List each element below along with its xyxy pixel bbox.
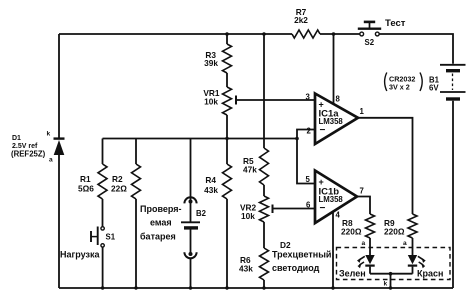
- svg-text:22Ω: 22Ω: [111, 184, 127, 194]
- wire top rail right segment: [379, 34, 453, 64]
- wire B2 to bottom clip: [190, 230, 192, 254]
- svg-text:R2: R2: [112, 174, 123, 184]
- wire pin 8 from top rail: [333, 34, 335, 105]
- node junction R2 bottom rail: [134, 286, 137, 289]
- svg-text:Нагрузка: Нагрузка: [60, 250, 100, 260]
- svg-text:7: 7: [360, 187, 364, 196]
- node junction R3 top rail: [225, 32, 229, 36]
- dashed box D2 tri-color LED: [337, 248, 451, 280]
- node junction R4 bottom rail: [225, 286, 228, 289]
- svg-text:47k: 47k: [243, 165, 257, 175]
- wire pin 1 output to R9: [358, 118, 413, 214]
- potentiometer VR1: [203, 73, 236, 115]
- LED red: [408, 255, 426, 274]
- resistor R9: [384, 214, 417, 238]
- wire R4 to bottom rail: [226, 199, 228, 288]
- wire bottom clip to rail: [190, 259, 192, 288]
- wire VR2 wiper to pin 6: [273, 208, 316, 210]
- svg-text:Тест: Тест: [385, 18, 406, 29]
- node k junction: [389, 272, 393, 276]
- wire R1 to S1: [102, 199, 104, 226]
- wire VR1 bottom to R4: [226, 115, 228, 164]
- svg-text:S1: S1: [106, 233, 116, 242]
- wire VR1 wiper to pin 3: [236, 99, 315, 101]
- node junction R5 chain top rail: [262, 32, 266, 36]
- battery B2 under test: [181, 209, 207, 228]
- wire LED cathodes join: [370, 273, 413, 275]
- node junction pin4 bottom rail: [331, 286, 334, 289]
- label (CR2032 3V x 2): [385, 73, 423, 92]
- label Проверяемая батарея: [140, 204, 182, 242]
- wire bottom rail: [59, 287, 453, 289]
- node junction R7/S2/pin8: [332, 32, 336, 36]
- wire pin 4 to bottom rail: [332, 212, 334, 288]
- battery B1: [429, 65, 466, 99]
- svg-text:D1: D1: [12, 135, 21, 142]
- svg-text:Проверя-: Проверя-: [140, 204, 182, 214]
- svg-text:+: +: [319, 177, 324, 187]
- svg-text:a: a: [403, 240, 407, 247]
- svg-text:a: a: [362, 240, 366, 247]
- wire top rail mid segment: [320, 33, 360, 35]
- svg-text:a: a: [49, 157, 53, 164]
- svg-text:емая: емая: [150, 218, 172, 228]
- svg-text:Зелен: Зелен: [339, 269, 366, 279]
- resistor R6: [239, 248, 269, 280]
- resistor R7: [292, 7, 320, 38]
- potentiometer VR2: [240, 196, 273, 222]
- svg-text:3V x 2: 3V x 2: [389, 83, 410, 92]
- wire R9 to red LED: [412, 238, 414, 255]
- resistor R3: [204, 34, 231, 73]
- wire S1 to bottom rail: [102, 247, 104, 288]
- resistor R1: [78, 139, 107, 200]
- svg-text:2k2: 2k2: [294, 15, 308, 25]
- svg-text:220Ω: 220Ω: [341, 227, 362, 237]
- resistor R8: [341, 214, 375, 238]
- LED green: [357, 255, 375, 274]
- node junction VR1/R4 on bus: [225, 137, 228, 140]
- B2 bottom clip terminal: [184, 252, 196, 258]
- wire bus to B2: [190, 139, 192, 223]
- svg-text:S2: S2: [365, 38, 375, 47]
- svg-text:39k: 39k: [204, 58, 218, 68]
- label D2 Трехцветный светодиод: [272, 240, 331, 273]
- svg-text:6: 6: [306, 201, 311, 210]
- svg-text:5: 5: [306, 175, 311, 184]
- wire right rail below battery: [452, 101, 454, 288]
- wire pin 7 output to R8: [357, 197, 370, 215]
- node junction bus to pin2/pin5: [295, 137, 299, 141]
- wire left rail upper: [58, 34, 60, 138]
- svg-text:Трехцветный: Трехцветный: [272, 250, 331, 260]
- svg-text:1: 1: [360, 107, 365, 116]
- svg-text:−: −: [320, 203, 326, 214]
- wire R6 to bottom rail: [263, 280, 265, 288]
- wire VR2 to R6: [263, 222, 265, 248]
- wire R8 to green LED: [369, 238, 371, 255]
- svg-text:−: −: [320, 125, 326, 136]
- svg-text:LM358: LM358: [319, 117, 344, 126]
- svg-text:8: 8: [336, 95, 341, 104]
- node junction R6 bottom rail: [262, 286, 265, 289]
- svg-text:43k: 43k: [204, 185, 218, 195]
- diode D1 (2.5V ref REF25Z): [11, 131, 65, 164]
- wire cathode to bottom rail: [390, 274, 392, 288]
- op-amp IC1b: [315, 171, 357, 224]
- svg-text:10k: 10k: [241, 211, 255, 221]
- wire bus node (battery+): [103, 138, 298, 140]
- wire bus step up to pin 2: [297, 130, 315, 139]
- op-amp IC1a: [315, 94, 358, 145]
- svg-text:2: 2: [307, 127, 312, 136]
- wire V+ drop to R5 chain: [263, 34, 265, 148]
- switch S1: [91, 227, 116, 248]
- svg-text:6V: 6V: [429, 84, 439, 93]
- svg-text:k: k: [384, 281, 388, 288]
- resistor R4: [204, 164, 231, 199]
- wire top rail left segment: [59, 33, 292, 35]
- node junction S1 bottom rail: [101, 286, 104, 289]
- resistor R5: [243, 148, 269, 185]
- svg-text:R1: R1: [80, 174, 91, 184]
- svg-text:43k: 43k: [239, 264, 253, 274]
- wire R5 to VR2: [263, 185, 265, 196]
- svg-text:10k: 10k: [204, 97, 218, 107]
- resistor R2: [111, 139, 141, 200]
- svg-text:батарея: батарея: [140, 232, 176, 242]
- svg-text:5Ω6: 5Ω6: [78, 184, 94, 194]
- switch S2: [358, 22, 381, 47]
- svg-text:220Ω: 220Ω: [384, 227, 405, 237]
- wire left rail lower: [58, 155, 60, 288]
- node junction LED cathode bottom rail: [389, 286, 392, 289]
- svg-text:LM358: LM358: [319, 195, 344, 204]
- svg-text:k: k: [47, 131, 51, 138]
- wire bus down to pin 5: [297, 139, 315, 184]
- svg-text:светодиод: светодиод: [272, 263, 320, 273]
- wire R2 to bottom rail: [135, 199, 137, 288]
- svg-text:3: 3: [306, 93, 311, 102]
- svg-text:(REF25Z): (REF25Z): [11, 150, 46, 159]
- node junction B2 bottom rail: [189, 286, 192, 289]
- svg-text:Красн: Красн: [417, 269, 443, 279]
- svg-text:D2: D2: [280, 240, 291, 250]
- svg-text:R4: R4: [205, 175, 216, 185]
- svg-text:4: 4: [336, 211, 341, 220]
- B2 top clip terminal: [184, 197, 196, 203]
- svg-text:B2: B2: [196, 209, 207, 218]
